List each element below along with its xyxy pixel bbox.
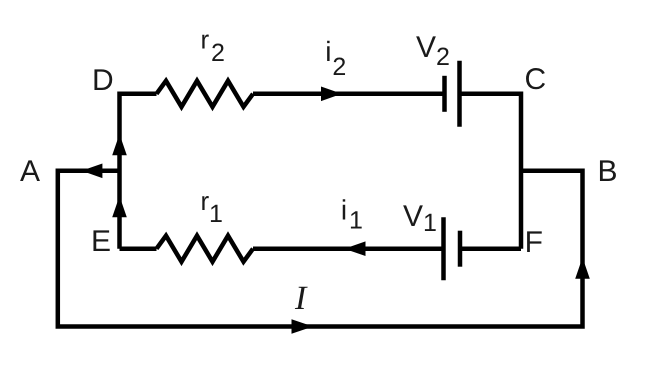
wire vertical E to D and D to resistor r2 bbox=[120, 94, 157, 249]
arrow up on E-D wire below junction bbox=[112, 196, 127, 217]
svg-text:r: r bbox=[201, 25, 210, 55]
svg-text:I: I bbox=[294, 280, 308, 317]
svg-text:A: A bbox=[20, 155, 40, 188]
wire battery V1 to resistor r1 bbox=[253, 246, 444, 251]
wire V2 to C corner down to F corner bbox=[460, 94, 522, 249]
resistor r1 bbox=[157, 236, 254, 262]
wire r2 to battery V2 bbox=[253, 92, 445, 97]
arrow up on right vertical wire bbox=[575, 258, 590, 279]
svg-text:D: D bbox=[92, 64, 114, 97]
arrow I (right) on bottom wire bbox=[292, 319, 314, 334]
arrow i1 (left) on inner bottom wire bbox=[344, 241, 365, 256]
battery V1 short plate (negative) bbox=[458, 231, 463, 267]
svg-text:V: V bbox=[416, 31, 436, 64]
battery V1 long plate (positive) bbox=[441, 217, 446, 280]
svg-text:2: 2 bbox=[436, 43, 450, 71]
svg-text:i: i bbox=[325, 36, 331, 67]
arrow up on E-D wire above junction bbox=[112, 134, 127, 155]
svg-text:1: 1 bbox=[209, 200, 223, 228]
resistor r2 bbox=[157, 81, 254, 107]
arrow into node A (left) bbox=[82, 164, 103, 179]
svg-text:V: V bbox=[403, 200, 423, 233]
svg-text:E: E bbox=[91, 225, 111, 258]
svg-text:2: 2 bbox=[211, 39, 225, 67]
arrow i2 (right) on top wire bbox=[321, 87, 342, 102]
wire outer loop: B right vertical, bottom wire, left vertical, A horizontal bbox=[58, 171, 583, 327]
svg-text:C: C bbox=[525, 63, 547, 96]
svg-text:1: 1 bbox=[349, 207, 363, 235]
svg-text:i: i bbox=[341, 195, 347, 226]
battery V2 short plate (negative) bbox=[442, 76, 447, 112]
svg-text:1: 1 bbox=[423, 209, 437, 237]
wire F to battery V1 short plate bbox=[460, 246, 521, 251]
battery V2 long plate (positive) bbox=[457, 61, 462, 127]
wire E horizontal to resistor r1 bbox=[120, 246, 157, 251]
svg-text:F: F bbox=[525, 226, 543, 259]
svg-text:2: 2 bbox=[332, 53, 346, 81]
svg-text:B: B bbox=[598, 155, 618, 188]
